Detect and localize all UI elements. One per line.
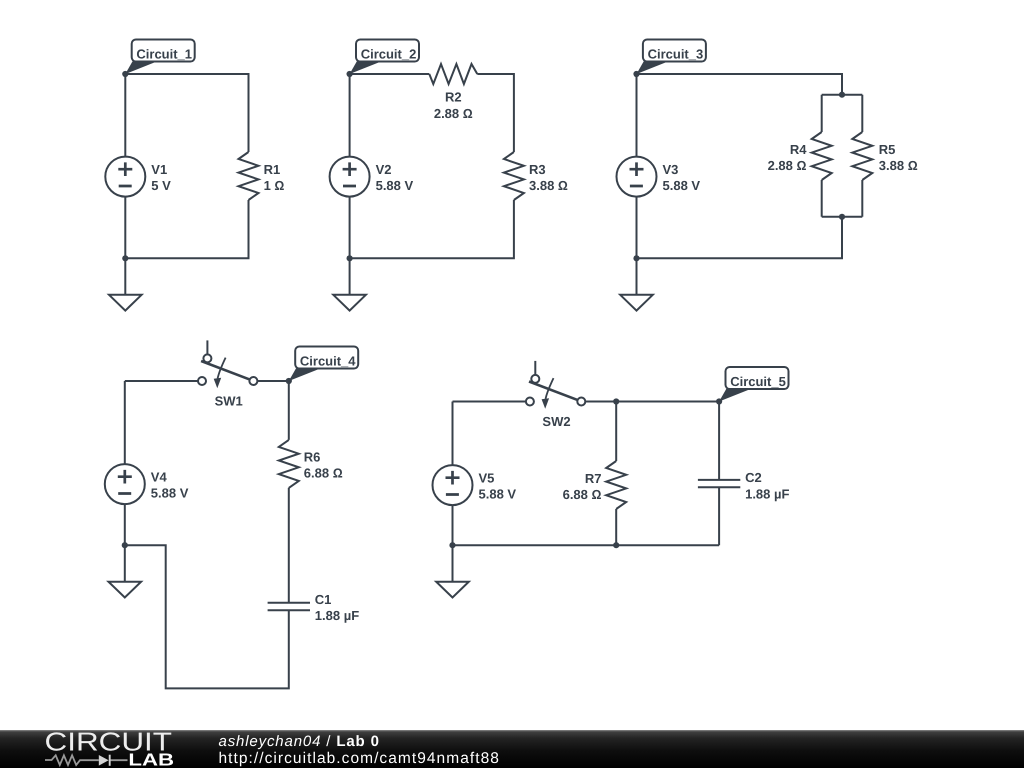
svg-text:V3: V3 [663,162,679,177]
svg-text:3.88 Ω: 3.88 Ω [879,158,918,173]
svg-text:V1: V1 [151,162,167,177]
svg-text:R6: R6 [304,449,321,464]
svg-text:R7: R7 [585,471,602,486]
svg-text:R4: R4 [790,142,807,157]
svg-text:2.88 Ω: 2.88 Ω [434,106,473,121]
svg-text:1.88 µF: 1.88 µF [745,487,789,502]
svg-text:Circuit_3: Circuit_3 [648,46,704,61]
svg-text:C1: C1 [315,592,332,607]
svg-text:5.88 V: 5.88 V [663,178,701,193]
svg-text:LAB: LAB [128,750,174,768]
svg-text:SW1: SW1 [215,394,243,409]
svg-text:5.88 V: 5.88 V [376,178,414,193]
svg-text:5.88 V: 5.88 V [479,487,517,502]
svg-text:SW2: SW2 [542,414,570,429]
svg-text:1.88 µF: 1.88 µF [315,608,359,623]
svg-text:C2: C2 [745,470,762,485]
svg-text:R2: R2 [445,90,462,105]
svg-text:Circuit_1: Circuit_1 [136,46,192,61]
svg-text:ashleychan04 / Lab 0: ashleychan04 / Lab 0 [219,733,380,750]
svg-text:http://circuitlab.com/camt94nm: http://circuitlab.com/camt94nmaft88 [219,750,500,767]
svg-text:6.88 Ω: 6.88 Ω [563,487,602,502]
svg-text:V4: V4 [151,470,168,485]
svg-text:5 V: 5 V [151,178,171,193]
svg-text:V2: V2 [376,162,392,177]
svg-text:3.88 Ω: 3.88 Ω [529,178,568,193]
svg-text:R5: R5 [879,142,896,157]
svg-text:R1: R1 [264,162,281,177]
svg-text:Circuit_4: Circuit_4 [300,353,356,368]
svg-text:Circuit_5: Circuit_5 [730,374,786,389]
svg-text:R3: R3 [529,162,546,177]
svg-text:2.88 Ω: 2.88 Ω [768,158,807,173]
svg-text:Circuit_2: Circuit_2 [361,46,417,61]
svg-text:V5: V5 [479,471,495,486]
svg-text:6.88 Ω: 6.88 Ω [304,465,343,480]
svg-text:1 Ω: 1 Ω [264,178,285,193]
svg-text:5.88 V: 5.88 V [151,486,189,501]
